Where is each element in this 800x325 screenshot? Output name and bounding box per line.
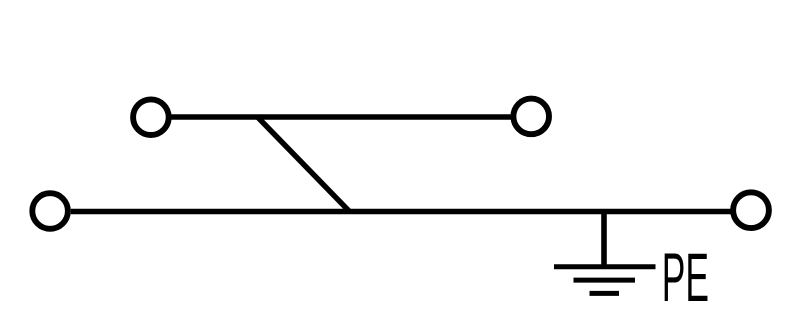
ground symbol bar 2 <box>574 278 636 283</box>
ground symbol bar 3 <box>590 291 620 296</box>
wire bottom horizontal <box>71 209 731 215</box>
svg-text:PE: PE <box>662 238 709 316</box>
terminal circle top-left <box>133 99 169 135</box>
wire top horizontal <box>171 114 511 120</box>
terminal circle bottom-right <box>733 192 769 228</box>
label PE <box>662 238 709 316</box>
wire ground stem <box>601 212 607 267</box>
wire diagonal bridge <box>258 117 350 212</box>
ground symbol bar 1 <box>554 264 656 269</box>
terminal circle bottom-left <box>32 193 68 229</box>
terminal circle top-right <box>513 99 549 135</box>
